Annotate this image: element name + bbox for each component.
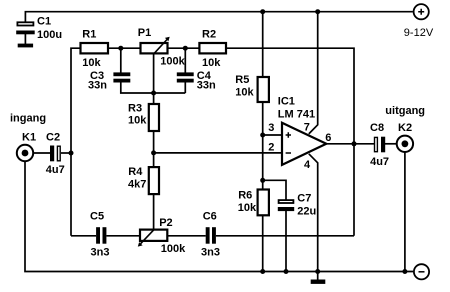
svg-text:R4: R4 xyxy=(128,166,143,178)
svg-text:10k: 10k xyxy=(82,57,101,69)
svg-text:9-12V: 9-12V xyxy=(404,27,434,39)
svg-text:10k: 10k xyxy=(235,87,254,99)
svg-text:4: 4 xyxy=(304,159,311,171)
svg-text:R5: R5 xyxy=(235,74,249,86)
svg-text:10k: 10k xyxy=(128,114,147,126)
svg-text:3n3: 3n3 xyxy=(201,246,220,258)
svg-text:C2: C2 xyxy=(46,132,60,144)
svg-text:LM 741: LM 741 xyxy=(278,109,315,121)
svg-text:C6: C6 xyxy=(203,211,217,223)
svg-text:R3: R3 xyxy=(128,102,142,114)
svg-text:2: 2 xyxy=(268,141,274,153)
svg-text:10k: 10k xyxy=(238,202,257,214)
svg-text:IC1: IC1 xyxy=(278,96,295,108)
svg-text:C5: C5 xyxy=(90,211,104,223)
svg-text:100k: 100k xyxy=(161,243,186,255)
svg-text:K2: K2 xyxy=(398,122,412,134)
svg-text:C1: C1 xyxy=(37,15,51,27)
svg-text:10k: 10k xyxy=(202,57,221,69)
svg-text:3n3: 3n3 xyxy=(91,246,110,258)
svg-text:R2: R2 xyxy=(202,29,216,41)
svg-text:33n: 33n xyxy=(88,80,107,92)
svg-text:uitgang: uitgang xyxy=(385,105,425,117)
svg-text:4k7: 4k7 xyxy=(128,178,146,190)
svg-text:R6: R6 xyxy=(238,189,252,201)
svg-text:100u: 100u xyxy=(37,29,62,41)
svg-text:33n: 33n xyxy=(197,80,216,92)
svg-text:C8: C8 xyxy=(370,122,384,134)
svg-text:P1: P1 xyxy=(138,27,151,39)
svg-text:P2: P2 xyxy=(159,217,172,229)
svg-text:C7: C7 xyxy=(297,193,311,205)
svg-text:K1: K1 xyxy=(22,132,36,144)
svg-text:4u7: 4u7 xyxy=(370,156,389,168)
svg-text:R1: R1 xyxy=(82,29,96,41)
svg-text:4u7: 4u7 xyxy=(46,164,65,176)
svg-text:6: 6 xyxy=(325,132,331,144)
svg-text:ingang: ingang xyxy=(10,113,46,125)
svg-text:22u: 22u xyxy=(297,206,316,218)
svg-text:100k: 100k xyxy=(160,55,185,67)
svg-text:3: 3 xyxy=(268,122,274,134)
svg-text:7: 7 xyxy=(304,122,310,134)
